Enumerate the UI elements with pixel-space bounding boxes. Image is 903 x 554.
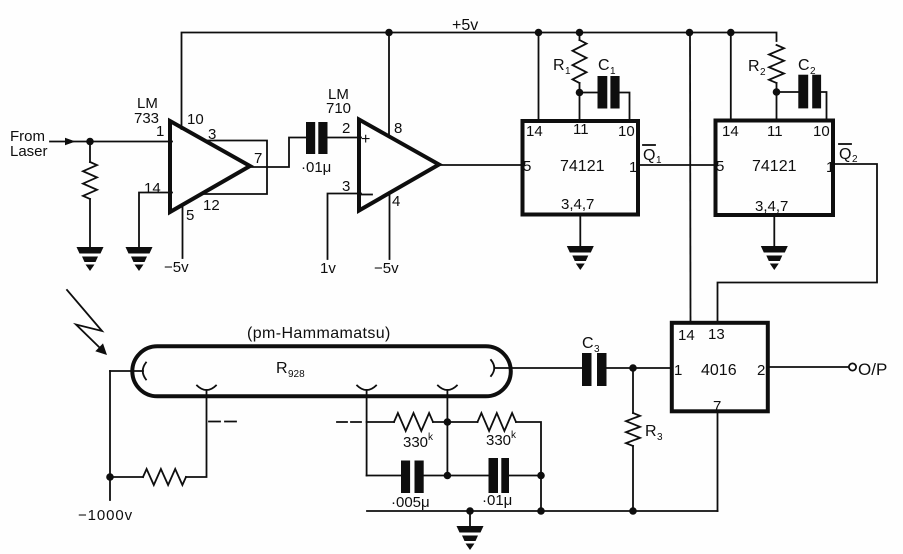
svg-text:1: 1 [156,123,164,140]
wire Q1 to 74121b pin5 [638,164,717,166]
wire 74121a ground stem [579,216,581,247]
svg-text:74121: 74121 [752,158,797,175]
node rail-74121a-pin14 [535,29,543,37]
node laser-R junction [86,138,94,146]
node -1000v junction [106,473,114,481]
svg-text:2: 2 [760,67,766,78]
capacitor C1 [580,92,598,94]
dynode D1 [197,386,216,391]
svg-text:5: 5 [186,207,194,224]
svg-text:+5v: +5v [452,17,478,34]
wire dynode chain dashes 2 [337,421,362,423]
node cap row D3 [444,472,452,480]
terminal O/P [849,363,856,370]
node bus cap right [537,507,545,515]
ground G4 [761,246,788,270]
wire U1 output pin7 [250,138,306,168]
capacitor .01u coupling [306,122,315,154]
svg-text:1v: 1v [320,260,336,277]
svg-text:+: + [361,131,370,148]
wire laser input [50,141,172,143]
svg-text:5: 5 [716,158,724,175]
capacitor .005u [367,475,401,477]
svg-text:2: 2 [810,66,816,77]
svg-text:3: 3 [342,178,350,195]
svg-text:8: 8 [394,120,402,137]
wire ground bus [367,510,718,512]
wire Q2 to 4016 pin13 [718,164,878,321]
svg-text:2: 2 [757,362,765,379]
wire 4016 pin7 to bus [717,413,719,511]
svg-text:·01μ: ·01μ [482,492,512,509]
svg-text:C: C [798,57,810,74]
svg-text:R: R [645,423,657,440]
capacitor .01u second [447,475,488,477]
resistor dynode bias [110,476,143,478]
svg-text:1: 1 [610,66,616,77]
svg-text:4: 4 [392,193,400,210]
svg-text:2: 2 [342,120,350,137]
dynode D2 [357,386,376,391]
svg-text:10: 10 [618,123,635,140]
wire U2 pin3 to 1v [328,194,362,260]
ground G2 [126,247,153,271]
svg-text:74121: 74121 [560,158,605,175]
svg-text:(pm-Hammamatsu): (pm-Hammamatsu) [247,325,391,342]
ground G1 [77,247,104,271]
svg-text:10: 10 [187,111,204,128]
wire 74121b ground stem [773,216,775,246]
svg-text:3,4,7: 3,4,7 [561,196,594,213]
svg-text:10: 10 [813,123,830,140]
wire C3 to 4016 pin1 [607,367,670,369]
capacitor C2 [777,91,799,93]
wire U1 -5v supply [182,204,184,258]
arrow laser input [65,138,76,145]
wire U2 output to 74121a pin5 [440,164,522,166]
wire U2 pin4 -5v [389,192,391,259]
svg-text:1: 1 [826,159,834,176]
svg-text:−5v: −5v [164,259,189,276]
svg-text:Laser: Laser [10,143,48,160]
svg-text:R: R [553,57,565,74]
svg-text:7: 7 [254,150,262,167]
node cap row right [537,472,545,480]
node R2-C2 [773,88,781,96]
wire cap to U2 pin2 [328,137,362,139]
wire +5v to 4016 pin14 [689,33,692,321]
wire 74121b pin14 [730,33,732,119]
svg-text:·01μ: ·01μ [301,159,331,176]
IC 4016 switch [672,323,768,412]
svg-text:1: 1 [629,159,637,176]
wire U1 pin14 to ground [139,193,172,248]
svg-text:R: R [748,58,760,75]
anode [491,360,494,376]
resistor 330k second [447,421,477,423]
svg-text:14: 14 [678,327,695,344]
op-amp U1 LM733 [170,121,250,212]
node rail-4016 [686,29,694,37]
wire ground stem bus [469,511,471,526]
capacitor C3 [582,353,592,386]
IC 74121 first monostable [523,121,639,215]
photomultiplier V1 R928 envelope [132,346,511,396]
svg-text:·005μ: ·005μ [391,494,430,511]
node rail-LM710 [385,29,393,37]
svg-text:−5v: −5v [374,260,399,277]
svg-text:330: 330 [403,434,428,451]
svg-text:13: 13 [708,326,725,343]
svg-text:330: 330 [486,432,511,449]
svg-text:C: C [582,335,594,352]
wire U2 pin8 +5v [388,33,390,138]
svg-text:1: 1 [565,66,571,77]
wire cathode to -1000v [109,371,111,500]
svg-text:Q: Q [839,146,851,163]
node bus ground [466,507,474,515]
wire dynode chain dashes 1 [209,421,238,423]
wire dynode D2 stem [366,390,368,476]
svg-text:3: 3 [657,432,663,443]
minus marker U2 [361,194,372,196]
svg-text:3,4,7: 3,4,7 [755,198,788,215]
svg-text:14: 14 [526,123,543,140]
lightning light-input arrow [67,290,102,347]
node dynode D3 resistor row [444,418,452,426]
wire 4016 output [768,366,849,368]
IC 74121 second monostable [716,121,834,216]
wire +5v rail [182,33,777,130]
svg-text:4016: 4016 [701,362,737,379]
resistor laser bias [89,142,91,163]
node rail-74121b-pin14 [727,29,735,37]
resistor 330k first [367,421,394,423]
wire dynode D3 stem [446,390,448,476]
svg-text:Q: Q [643,147,655,164]
svg-text:C: C [598,57,610,74]
ground G3 [567,246,594,270]
wire U1 feedback pins 3-12 [203,141,268,195]
svg-text:14: 14 [144,180,161,197]
photocathode [110,370,143,372]
svg-text:−1000v: −1000v [78,507,133,524]
resistor R3 [632,368,634,413]
svg-text:11: 11 [767,123,783,140]
node R3 top [629,364,637,372]
svg-text:R: R [276,360,288,377]
resistor R2 [769,45,784,83]
wire 74121a pin14 [538,33,540,120]
svg-text:5: 5 [523,158,531,175]
svg-text:11: 11 [573,121,589,138]
dynode D3 [438,386,457,391]
svg-text:1: 1 [674,362,682,379]
node R1-C1 [576,89,584,97]
svg-text:O/P: O/P [858,360,887,379]
op-amp U2 LM710 [359,120,439,211]
resistor R1 [579,33,581,41]
svg-text:928: 928 [288,369,305,380]
svg-text:710: 710 [326,100,351,117]
svg-text:3: 3 [594,344,600,355]
node bus R3 [629,507,637,515]
node rail-R1 [576,29,584,37]
svg-text:14: 14 [722,123,739,140]
ground G5 [457,526,484,550]
svg-text:12: 12 [203,197,220,214]
